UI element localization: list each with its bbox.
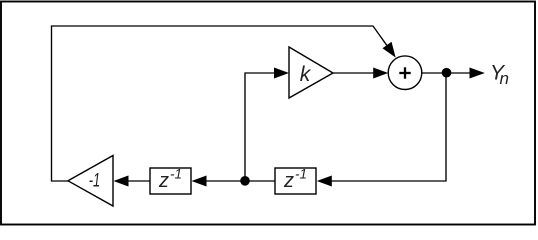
svg-text:k: k — [300, 63, 312, 86]
svg-text:n: n — [500, 69, 509, 88]
svg-text:z: z — [283, 170, 294, 192]
svg-text:-1: -1 — [89, 171, 101, 192]
svg-text:-1: -1 — [295, 167, 307, 182]
svg-text:-1: -1 — [170, 167, 182, 182]
svg-text:z: z — [158, 170, 169, 192]
